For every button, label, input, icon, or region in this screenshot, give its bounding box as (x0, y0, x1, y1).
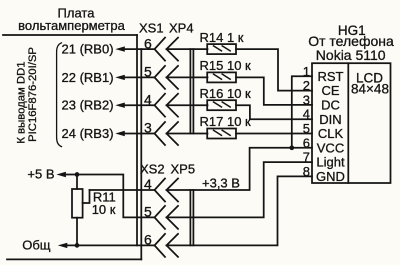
svg-text:23 (RB2): 23 (RB2) (62, 98, 114, 113)
wire +3,3V to VCC (167, 148, 313, 190)
svg-text:R17 10 к: R17 10 к (200, 114, 252, 129)
board right edge line (136, 35, 138, 245)
svg-text:84×48: 84×48 (351, 82, 389, 97)
wire plug3 to R17 (167, 133, 208, 135)
connector XP4 bundle lines (189, 49, 191, 133)
wire Light (167, 162, 313, 217)
XP4 contact 5 plug (167, 66, 179, 89)
svg-text:DC: DC (321, 98, 340, 113)
svg-text:К выводам DD1: К выводам DD1 (16, 61, 28, 143)
svg-text:XP5: XP5 (171, 162, 196, 177)
svg-text:CLK: CLK (318, 126, 344, 141)
R11 bottom lead (76, 218, 78, 246)
svg-text:5: 5 (144, 64, 152, 80)
LCD module body (312, 63, 391, 183)
svg-text:1: 1 (303, 64, 310, 79)
svg-text:DIN: DIN (319, 112, 341, 127)
junction RST-VCC (289, 145, 294, 150)
wire row4 left (90, 189, 155, 191)
svg-text:XP4: XP4 (169, 20, 194, 35)
svg-text:R14 1 к: R14 1 к (200, 30, 244, 45)
svg-text:CE: CE (321, 83, 339, 98)
svg-text:24 (RB3): 24 (RB3) (62, 126, 114, 141)
arrow +5V (56, 172, 66, 177)
R11 top lead (76, 175, 78, 190)
XP5 contact 4 plug (167, 179, 179, 202)
wire R14 to CE (236, 49, 312, 91)
svg-text:4: 4 (144, 91, 152, 107)
svg-text:7: 7 (303, 150, 310, 165)
svg-text:RST: RST (318, 69, 344, 84)
svg-text:5: 5 (303, 121, 310, 136)
svg-text:3: 3 (303, 92, 310, 107)
svg-text:22 (RB1): 22 (RB1) (62, 70, 114, 85)
svg-text:XS2: XS2 (140, 162, 165, 177)
svg-text:R16 10 к: R16 10 к (200, 86, 252, 101)
svg-text:3: 3 (144, 120, 152, 136)
XP5 contact 5 plug (167, 206, 179, 229)
wire R15 to DC (236, 77, 312, 105)
arrow RB2 (115, 103, 125, 108)
arrow RB3 (115, 131, 125, 136)
XP4 contact 3 plug (167, 122, 179, 145)
svg-text:Nokia 5110: Nokia 5110 (316, 47, 386, 63)
svg-text:вольтамперметра: вольтамперметра (18, 18, 125, 33)
board top edge (3, 34, 137, 36)
XS2 contact 6 socket (155, 234, 166, 257)
resistor R11 body (72, 189, 83, 218)
brace DD1 pins (57, 43, 62, 147)
svg-text:10 к: 10 к (92, 202, 116, 217)
XP4 contact 6 plug (167, 38, 179, 61)
svg-text:Общ: Общ (22, 237, 51, 252)
wire R17 to CLK (236, 133, 312, 135)
svg-text:4: 4 (144, 176, 152, 192)
wire Obshch row (66, 244, 154, 246)
svg-text:R15 10 к: R15 10 к (200, 58, 252, 73)
XS2 contact 5 socket (155, 206, 166, 229)
resistor R16 body (207, 100, 236, 110)
wire plug5 to R15 (167, 76, 208, 78)
svg-text:2: 2 (303, 78, 310, 93)
resistor R15 body (207, 72, 236, 82)
XS2 contact 4 socket (155, 179, 166, 202)
resistor R17 body (207, 129, 236, 139)
arrow Obshch (58, 243, 68, 248)
svg-text:GND: GND (316, 169, 345, 184)
arrow RB1 (115, 75, 125, 80)
arrow RB0 (115, 46, 125, 51)
wire RB0 row (124, 48, 155, 50)
svg-text:6: 6 (144, 232, 152, 248)
svg-text:5: 5 (144, 204, 152, 220)
wire RB2 row (124, 104, 155, 106)
wire RB3 row (124, 133, 155, 135)
wire plug4 to R16 (167, 104, 208, 106)
svg-text:6: 6 (144, 35, 152, 51)
R11 label leader (83, 190, 90, 203)
svg-text:PIC16F876-20I/SP: PIC16F876-20I/SP (27, 47, 39, 142)
LCD divider (347, 63, 349, 183)
svg-text:VCC: VCC (317, 140, 344, 155)
board bottom edge (7, 258, 141, 260)
wire RB1 row (124, 76, 155, 78)
XS1 contact 3 socket (155, 122, 166, 145)
wire GND (167, 176, 313, 245)
svg-text:+5 В: +5 В (27, 166, 54, 181)
XS1 contact 4 socket (155, 94, 166, 117)
wire RST tie (292, 76, 312, 148)
XP5 contact 6 plug (167, 234, 179, 257)
svg-text:XS1: XS1 (139, 20, 164, 35)
junction +5V / R11 (75, 172, 80, 177)
svg-text:21 (RB0): 21 (RB0) (62, 42, 114, 57)
resistor R14 body (207, 44, 236, 54)
XP4 contact 4 plug (167, 94, 179, 117)
XS1 contact 5 socket (155, 66, 166, 89)
wire plug6 to R14 (167, 48, 208, 50)
wire +5V feed (65, 175, 155, 218)
svg-text:6: 6 (303, 135, 310, 150)
junction Obshch / R11 (75, 243, 80, 248)
svg-text:+3,3 В: +3,3 В (202, 176, 240, 191)
connector XP5 bundle lines (189, 190, 191, 245)
svg-text:Light: Light (316, 155, 345, 170)
wire R16 to DIN (236, 105, 312, 119)
svg-text:4: 4 (303, 107, 310, 122)
XS bundle line (140, 49, 142, 259)
XS1 contact 6 socket (155, 38, 166, 61)
svg-text:8: 8 (303, 164, 310, 179)
